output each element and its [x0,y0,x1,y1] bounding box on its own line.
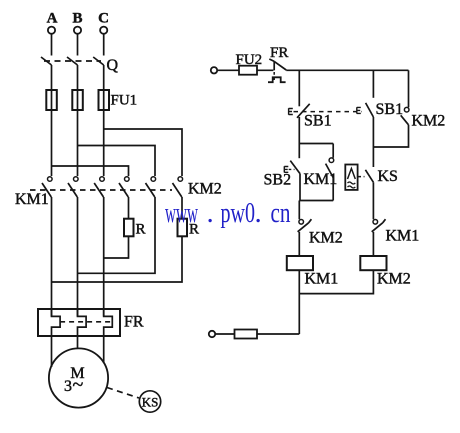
thermal relay FR box [38,309,120,336]
wire rail down to KM2 NO [408,70,410,107]
wire KM1 NC to KM2 coil [372,232,374,256]
wire FR to motor phase C [103,336,105,363]
contactor KM1 main contact 2 [68,177,78,197]
wire SB1 NO lower [372,117,374,167]
fuse FU2 bottom [235,330,258,339]
switch Q linkage dashed [44,60,101,62]
wire phase A down to KM1 contact 1 [51,110,53,176]
svg-text:cn: cn [271,197,291,229]
wire SB1 NC to parallel group [298,117,300,144]
svg-text:~: ~ [73,374,84,396]
wire branch phase C to KM2 contact 6 [104,129,182,176]
KS box to contact dashed [358,176,365,178]
terminal control bottom [209,331,215,337]
wire col6 contact to resistor [181,197,183,219]
wire parallel group bottom rail [299,200,333,202]
wire through fuse C [103,90,105,110]
svg-text:SB1: SB1 [376,101,404,118]
svg-text:KM2: KM2 [309,230,343,247]
watermark www.pw0.cn [165,197,291,229]
svg-text:SB2: SB2 [264,172,292,189]
wire rail down to SB1 NC [298,70,300,106]
dashed link motor to speed sensor KS [107,388,139,399]
wire KM2 NO lower and merge [373,125,408,147]
KM1 main contacts linkage dashed [30,189,172,191]
wire phase A terminal to Q [51,34,53,56]
FR heater element phase A [52,309,61,336]
coil KM1 [287,256,313,270]
wire KM2 NC to KM1 coil [298,232,300,256]
svg-text:FU1: FU1 [111,93,138,109]
speed relay KS operating box [345,165,357,190]
svg-text:SB1: SB1 [304,112,332,129]
fuse FU2 [239,66,257,75]
svg-text:FU2: FU2 [236,52,263,68]
wire col2 below contact to FR box [77,197,79,317]
contactor KM1 auxiliary NO contact [326,158,334,178]
speed sensor KS circle [139,391,160,412]
svg-text:.: . [207,197,214,229]
svg-text:KS: KS [378,168,398,185]
wire bottom rail [257,333,299,335]
wire KM1 coil to bottom join [298,270,300,334]
svg-text:FR: FR [124,314,144,331]
motor M 3~ [49,348,108,407]
wire through fuse B [77,90,79,110]
wire through fuse A [51,90,53,110]
wire phase B terminal to Q [77,34,79,56]
switch Q pole 2 blade [67,57,78,65]
wire KM1 aux branch upper [332,144,334,158]
contactor KM2 NO auxiliary contact [401,107,409,124]
wire Q pole1 to FU1 [51,65,53,90]
resistor R (col6) [178,219,188,237]
wire phase B down to KM1 contact 2 [77,110,79,176]
contactor KM2 main contact 5 [146,177,156,197]
wire Q pole2 to FU1 [77,65,79,90]
terminal A [48,27,55,34]
contactor KM2 NC interlock contact [298,219,312,232]
contactor KM1 main contact 3 [94,177,104,197]
contactor KM2 main contact 4 [119,177,129,197]
SB2 to blade dashed [289,168,295,170]
svg-text:KM2: KM2 [412,113,446,130]
fuse FU1 phase A [46,90,57,110]
svg-text:KM1: KM1 [304,171,338,188]
svg-text:KS: KS [142,395,159,410]
contactor KM2 main contact 6 [173,177,183,197]
switch Q pole 1 blade [41,57,52,65]
wire top rail [286,69,408,71]
SB1 NO actuator E [357,107,361,113]
terminal C [100,27,107,34]
switch Q pole 3 blade [93,57,104,65]
pushbutton SB2 (start) blade [290,161,300,174]
wire col5 contact to col2 join [78,197,156,273]
svg-text:KM2: KM2 [188,181,222,198]
coil KM2 [360,256,386,270]
FR heater linkage dashed [60,321,112,323]
contactor KM1 NC interlock contact [372,219,386,232]
SB1 linkage dashed [294,111,363,113]
wire parallel group top rail [299,143,333,145]
svg-text:Q: Q [107,57,119,74]
wire branch phase A to KM2 contact 4 [52,166,129,176]
wire KM2 coil to join [299,270,373,293]
wire KM1 aux lower [332,178,334,201]
wire col3 below contact to FR box [103,197,105,317]
wire col4 resistor to col3 join [104,236,129,258]
fuse FU1 phase B [72,90,83,110]
wire col6 resistor to col1 join [52,236,183,282]
wire col1 below contact to FR box [51,197,53,317]
wire FR to motor phase A [51,336,53,367]
wire phase C terminal to Q [103,34,105,56]
svg-text:pw0: pw0 [221,197,256,229]
FR heater element phase C [104,309,113,336]
svg-text:B: B [72,11,82,27]
speed relay KS contact blade [365,170,373,183]
wire SB2 branch upper [298,144,300,159]
wire KS to KM1 NC interlock [372,182,374,219]
svg-text:KM1: KM1 [386,228,420,245]
pushbutton SB1 NO blade [366,103,374,117]
wire rail down to SB1 NO [372,70,374,98]
terminal control top [211,67,217,73]
svg-text:KM2: KM2 [377,271,411,288]
svg-text:KM1: KM1 [305,271,339,288]
wire phase C down to KM1 contact 3 [103,110,105,176]
svg-text:FR: FR [270,45,288,61]
FR NC contact (thermal relay) [268,59,286,82]
wire fuse to bottom terminal [215,333,234,335]
wire SB2 lower [299,174,301,201]
resistor R (col4) [124,219,134,237]
wire Q pole3 to FU1 [103,65,105,90]
fuse FU1 phase C [99,90,110,110]
terminal B [74,27,81,34]
contactor KM1 main contact 1 [42,177,52,197]
wire FU2 to FR contact [257,69,273,71]
svg-text:KM1: KM1 [15,191,49,208]
svg-text:R: R [136,222,146,238]
wire terminal to FU2 [217,69,239,71]
svg-text:3: 3 [64,378,72,395]
pushbutton SB2 actuator E [284,166,288,172]
FR heater element phase B [78,309,87,336]
svg-text:C: C [98,11,109,27]
pushbutton SB1 NC (stop) [289,104,310,118]
svg-text:A: A [47,11,58,27]
svg-text:www: www [165,197,198,229]
wire col4 contact to resistor [128,197,130,219]
svg-text:.: . [255,197,262,229]
wire group to KM2 NC interlock [298,201,300,220]
wire branch phase B to KM2 contact 5 [78,146,156,177]
wire FR to motor phase B [77,336,79,349]
